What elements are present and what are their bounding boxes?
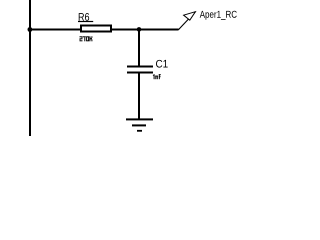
- node junction left: [28, 27, 33, 32]
- capacitor C1 top plate: [127, 66, 153, 68]
- value 1nF: [153, 74, 161, 79]
- label R6 underline: [78, 21, 93, 22]
- node junction capacitor: [137, 27, 142, 32]
- wire arrow shaft: [178, 12, 195, 30]
- net label Aper1_RC: [200, 11, 237, 20]
- wire resistor to arrow: [112, 29, 179, 31]
- label R6: [79, 13, 89, 21]
- port arrowhead: [184, 12, 196, 20]
- resistor R6 body: [81, 26, 111, 32]
- wire horizontal to resistor: [31, 29, 80, 31]
- value 270K: [80, 36, 93, 41]
- label C1: [156, 60, 168, 68]
- wire capacitor lower stem: [138, 74, 140, 119]
- ground: [126, 118, 153, 131]
- wire capacitor upper stem: [138, 30, 140, 66]
- capacitor C1 bottom plate: [127, 72, 153, 74]
- wire vertical bus left: [29, 0, 31, 136]
